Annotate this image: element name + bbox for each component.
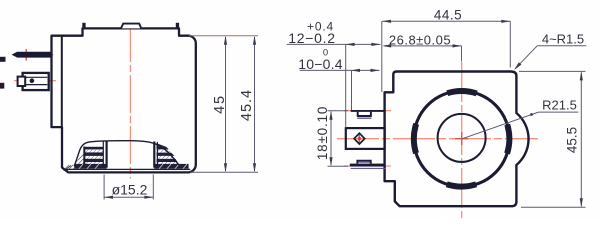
svg-text:4~R1.5: 4~R1.5 [542,32,584,47]
svg-text:45.4: 45.4 [239,89,255,121]
svg-text:ø15.2: ø15.2 [112,182,148,198]
svg-text:44.5: 44.5 [434,8,462,23]
svg-text:45.5: 45.5 [565,127,580,153]
svg-text:18±0.10: 18±0.10 [315,106,330,160]
svg-text:12−0.2: 12−0.2 [288,30,335,46]
svg-text:26.8±0.05: 26.8±0.05 [389,32,451,47]
svg-text:45: 45 [212,94,228,114]
svg-text:10−0.4: 10−0.4 [298,56,342,72]
svg-text:R21.5: R21.5 [542,98,577,113]
